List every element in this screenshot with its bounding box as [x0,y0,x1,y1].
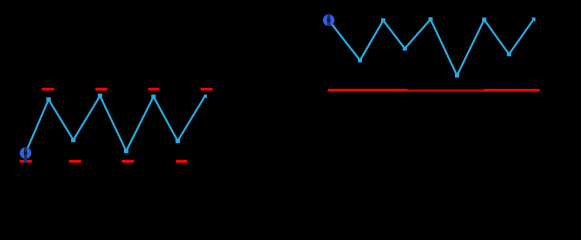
right chart long red line (3 overlapping segments) [328,89,540,92]
left start icon: blue disk with dark slot [20,147,32,163]
right chart zigzag line [329,19,534,75]
left chart markers [46,94,207,154]
right chart markers [358,17,536,77]
left chart bottom red dashes [20,160,188,163]
left chart top red dashes [42,88,213,91]
left chart zigzag line [26,96,206,153]
right start icon: blue disk with dark slot [323,14,335,26]
